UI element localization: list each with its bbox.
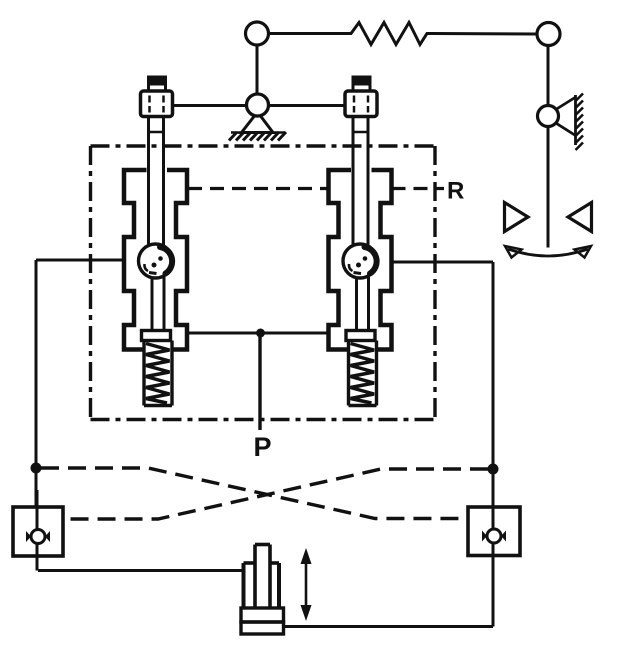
- svg-text:R: R: [447, 178, 464, 205]
- svg-text:P: P: [254, 432, 272, 462]
